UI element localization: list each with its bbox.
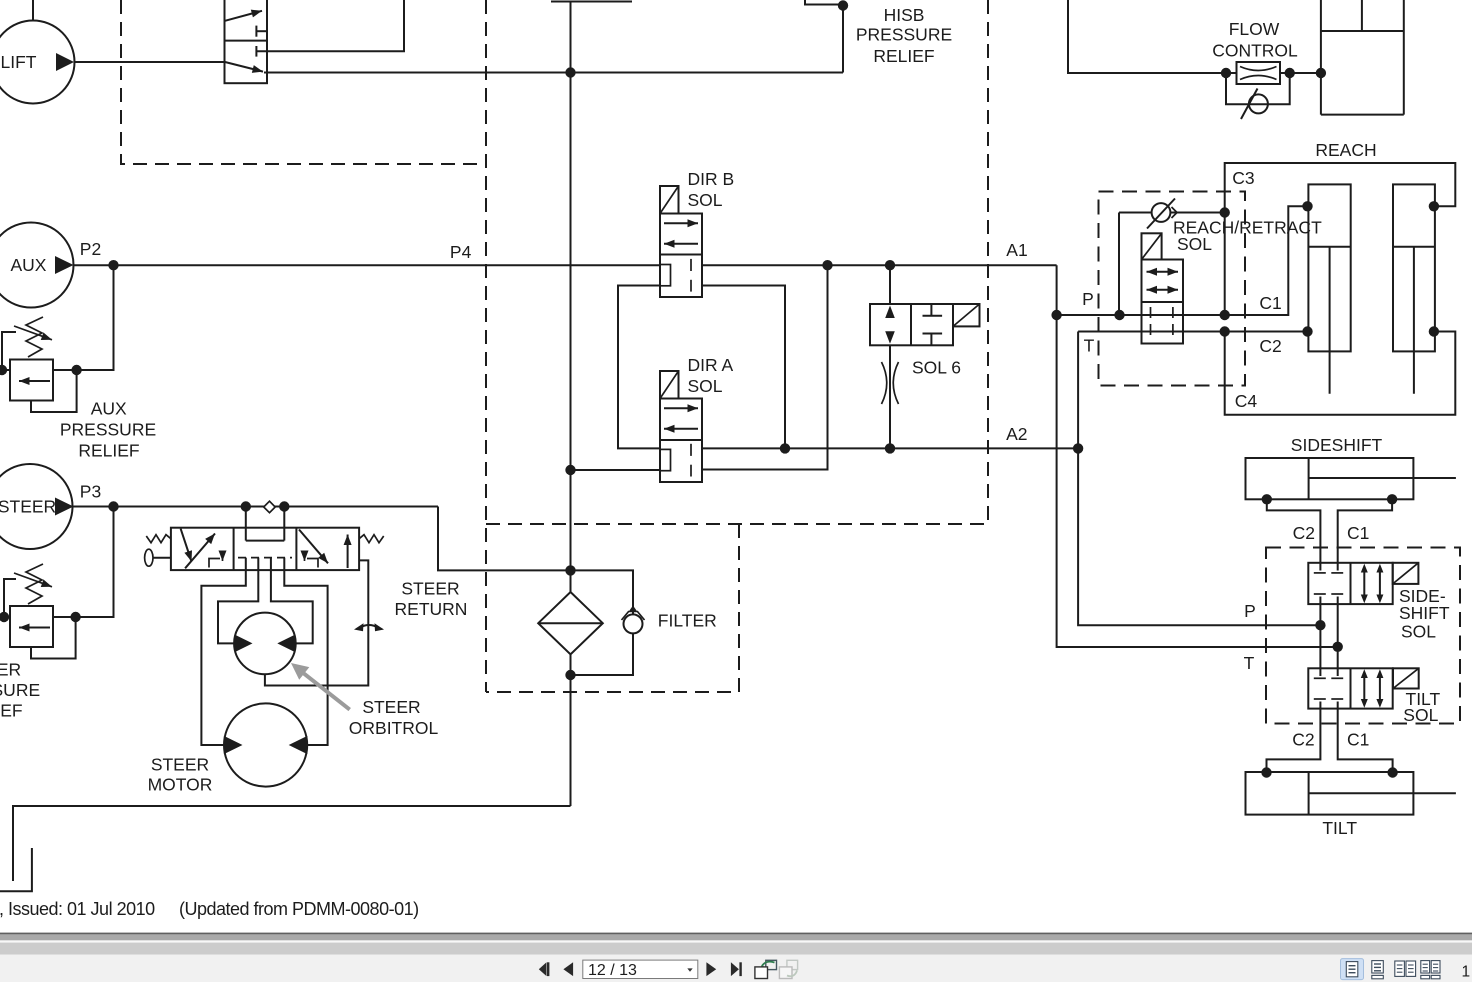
wire AUX relief drain loop	[31, 370, 77, 412]
label AUX PRESSURE RELIEF	[60, 399, 156, 461]
svg-text:PRESSURE: PRESSURE	[856, 25, 952, 45]
wire steer return loop	[265, 560, 368, 685]
valve DIR A body	[660, 399, 702, 483]
spring right of steer valve	[359, 535, 384, 543]
junction A2/DIR B loop	[780, 443, 790, 453]
valve DIR B SOL solenoid	[660, 186, 679, 214]
label REACH/RETRACT SOL	[1173, 218, 1322, 254]
junction filter bottom	[565, 670, 575, 680]
dashed boundary filter box	[486, 524, 739, 692]
pump STEER	[0, 464, 74, 549]
wire LIFT pump to valve	[75, 61, 225, 63]
pump LIFT	[0, 0, 75, 104]
junction steer supply right	[279, 501, 289, 511]
pump AUX	[0, 223, 74, 308]
cylinder TILT	[1246, 772, 1456, 815]
steer valve center cell closed ports	[238, 507, 292, 558]
dashed boundary REACH/RETRACT box	[1099, 192, 1246, 386]
svg-text:(Updated from PDMM-0080-01): (Updated from PDMM-0080-01)	[179, 899, 419, 919]
toolbar icon continuous	[1372, 961, 1384, 979]
toolbar icon two pages	[1395, 961, 1416, 976]
svg-text:SIDESHIFT: SIDESHIFT	[1291, 435, 1383, 455]
toolbar icon next view (disabled)	[779, 960, 797, 978]
svg-text:T: T	[1244, 653, 1255, 673]
wire A1 riser to sideshift T	[1057, 265, 1338, 647]
junction flow control left	[1221, 68, 1231, 78]
junction reach left cylinder bottom	[1302, 326, 1312, 336]
svg-text:, Issued: 01 Jul 2010: , Issued: 01 Jul 2010	[0, 899, 155, 919]
junction tilt cyl right	[1387, 767, 1397, 777]
wire filter drain to tank line	[570, 675, 572, 806]
solenoid of REACH/RETRACT valve	[1142, 233, 1162, 259]
label STEER MOTOR	[148, 755, 213, 795]
svg-text:T: T	[1084, 336, 1095, 356]
check valve flow control bypass	[1241, 89, 1268, 120]
svg-text:STEER: STEER	[151, 755, 209, 775]
wire steer valve port3 to orbitrol right	[271, 558, 313, 644]
svg-text:STEER: STEER	[401, 579, 459, 599]
svg-text:C1: C1	[1259, 293, 1281, 313]
svg-text:STEER: STEER	[0, 660, 21, 680]
orifice diamond on steer line	[264, 501, 276, 513]
wire A1 line	[702, 264, 1057, 266]
wire STEER relief outlet to P3	[53, 507, 114, 618]
spring left of steer valve	[146, 535, 171, 543]
junction P line left	[1051, 310, 1061, 320]
svg-text:SOL: SOL	[1403, 705, 1438, 725]
valve TILT SOL body	[1308, 668, 1392, 708]
junction P sideshift	[1315, 620, 1325, 630]
svg-text:A2: A2	[1006, 424, 1027, 444]
junction STEER relief pilot	[0, 612, 9, 622]
junction C2/C4	[1220, 326, 1230, 336]
wire AUX relief outlet to P2	[53, 265, 114, 370]
svg-text:P2: P2	[80, 239, 101, 259]
junction A2 elbow	[1073, 443, 1083, 453]
junction P2	[108, 260, 118, 270]
svg-text:C2: C2	[1259, 336, 1281, 356]
toolbar bars	[0, 933, 1472, 982]
wire DIR B right loop to A2	[702, 286, 785, 449]
wire SOL6 branch lower	[889, 345, 891, 448]
svg-text:P: P	[1244, 601, 1256, 621]
junction C1/C3	[1220, 310, 1230, 320]
toolbar icon previous view	[755, 960, 777, 978]
wire check valve to P	[1118, 213, 1120, 316]
wire flow control bypass	[1226, 73, 1290, 104]
svg-text:AUX: AUX	[11, 255, 47, 275]
wire STEER relief drain loop	[31, 617, 76, 659]
wire flow control outlet	[1280, 72, 1321, 74]
dashed boundary center vertical	[485, 0, 487, 692]
wire DIR B left loop to DIR A	[618, 286, 660, 449]
svg-text:TILT: TILT	[1322, 818, 1357, 838]
label STEER RETURN	[395, 579, 468, 620]
label HISB PRESSURE RELIEF	[856, 5, 952, 66]
relief valve STEER: body	[10, 606, 53, 647]
motor STEER ORBITROL	[234, 613, 296, 675]
label STEER ORBITROL	[349, 697, 439, 738]
svg-text:DIR A: DIR A	[688, 355, 734, 375]
dashed boundary main block left	[121, 0, 486, 164]
wire C1 to cylinder top	[1225, 206, 1308, 315]
solenoid of TILT valve	[1393, 668, 1419, 688]
toolbar page number box	[583, 960, 698, 979]
toolbar icon single page (selected)	[1341, 959, 1364, 980]
wire center riser x570	[570, 2, 572, 571]
label STEER PRESSURE RELIEF (clipped at left edge)	[0, 660, 40, 721]
dashed boundary middle horizontal	[486, 523, 988, 525]
svg-text:C2: C2	[1293, 523, 1315, 543]
cylinder REACH left	[1308, 184, 1350, 393]
svg-text:SOL: SOL	[688, 190, 723, 210]
junction reach left cylinder top	[1302, 201, 1312, 211]
svg-text:REACH: REACH	[1315, 140, 1376, 160]
wire steer valve port1 to motor left	[201, 558, 245, 745]
svg-text:RETURN: RETURN	[395, 599, 468, 619]
junction steer supply left	[241, 501, 251, 511]
svg-text:SOL: SOL	[688, 376, 723, 396]
wire DIR A left lower port to riser	[571, 469, 661, 471]
svg-text:SOL 6: SOL 6	[912, 358, 961, 378]
svg-text:FILTER: FILTER	[658, 611, 717, 631]
wire A2 riser to sideshift P	[1078, 332, 1320, 626]
junction riser/DIR A	[565, 465, 575, 475]
toolbar icon previous page	[563, 962, 573, 976]
valve DIR A SOL solenoid	[660, 371, 679, 399]
svg-text:STEER: STEER	[362, 697, 420, 717]
steer valve right cell flow paths	[299, 530, 348, 569]
svg-text:SOL: SOL	[1177, 234, 1212, 254]
handle of steer valve	[145, 549, 171, 566]
junction T sideshift	[1333, 642, 1343, 652]
wire REACH C3 header	[1225, 163, 1456, 315]
wire DIR A right lower loop to A1	[702, 265, 828, 469]
junction sideshift cyl right	[1387, 494, 1397, 504]
label SIDE-SHIFT SOL	[1399, 586, 1450, 642]
dashed boundary SIDESHIFT/TILT box	[1266, 548, 1460, 724]
steer valve left cell flow paths	[181, 529, 223, 569]
junction check/C3	[1220, 207, 1230, 217]
pointer arrow to orbitrol (gray)	[291, 663, 350, 710]
wire sideshift cyl right to valve C1	[1338, 499, 1392, 570]
svg-text:PRESSURE: PRESSURE	[60, 420, 156, 440]
wire steer line to filter	[438, 507, 571, 571]
junction A1/SOL6	[885, 260, 895, 270]
wire P3 main line	[74, 506, 439, 508]
pivot double arrow	[360, 625, 378, 628]
wire tank header	[13, 806, 571, 881]
toolbar icon next page	[706, 962, 716, 976]
junction HISB top	[838, 0, 848, 10]
flow control valve	[1237, 62, 1281, 84]
check valve REACH	[1119, 199, 1225, 229]
wire T/C2 line	[1078, 331, 1307, 333]
svg-text:C1: C1	[1347, 730, 1369, 750]
svg-text:RELIEF: RELIEF	[873, 46, 934, 66]
wire AUX relief pilot left	[2, 332, 16, 370]
svg-text:RELIEF: RELIEF	[78, 441, 139, 461]
wire tank stub	[0, 848, 32, 891]
svg-text:STEER: STEER	[0, 497, 56, 517]
wire STEER relief pilot left	[4, 579, 16, 617]
svg-text:DIR B: DIR B	[688, 169, 735, 189]
wire SOL6 branch upper	[889, 265, 891, 304]
filter element	[538, 570, 603, 675]
svg-text:P: P	[1082, 289, 1094, 309]
valve STEER 5/3 body	[171, 528, 359, 570]
wire steer valve port4 to motor right	[284, 558, 327, 745]
junction flow control right	[1285, 68, 1295, 78]
wire lift supply riser right	[1068, 0, 1226, 73]
cylinder REACH right	[1393, 184, 1435, 393]
svg-text:C2: C2	[1292, 730, 1314, 750]
restrictor on SOL6 branch	[882, 362, 899, 404]
wire steer valve port2 to orbitrol left	[218, 558, 258, 644]
junction AUX relief outlet	[71, 365, 81, 375]
toolbar icon last page	[731, 962, 742, 976]
wire P/C1 line	[1057, 314, 1225, 316]
svg-text:SOL: SOL	[1401, 622, 1436, 642]
wire tilt valve C2 to cylinder	[1267, 702, 1321, 773]
junction riser/HISB line	[565, 67, 575, 77]
svg-text:C4: C4	[1235, 391, 1258, 411]
wire REACH C4 header	[1225, 332, 1456, 415]
wire flow control inlet stub	[1226, 72, 1237, 74]
label DIR B SOL	[688, 169, 735, 210]
svg-text:1: 1	[1462, 964, 1471, 981]
component cut off at top edge	[551, 1, 632, 3]
svg-text:A1: A1	[1006, 240, 1027, 260]
toolbar icon two page continuous	[1421, 961, 1440, 979]
junction filter top	[565, 565, 575, 575]
svg-text:LIFT: LIFT	[1, 52, 37, 72]
wire valve outlet to HISB riser	[264, 72, 843, 74]
cylinder LIFT (cut off at top)	[1321, 0, 1404, 115]
relief valve AUX: body	[10, 360, 53, 401]
label DIR A SOL	[688, 355, 734, 396]
wire valve-to-valve right	[1337, 597, 1339, 677]
dashed boundary right vertical	[987, 0, 989, 524]
wire sideshift cyl left to valve C2	[1267, 499, 1321, 570]
relief valve STEER: spring	[14, 564, 52, 604]
svg-text:MOTOR: MOTOR	[148, 775, 213, 795]
valve DIR B body	[660, 214, 702, 298]
wire filter bypass	[571, 570, 634, 675]
svg-text:HISB: HISB	[884, 5, 925, 25]
svg-text:PRESSURE: PRESSURE	[0, 680, 40, 700]
svg-text:12 / 13: 12 / 13	[588, 962, 637, 979]
wire tilt valve C1 to cylinder	[1338, 702, 1393, 773]
junction reach right cylinder bottom	[1429, 326, 1439, 336]
toolbar icon first page	[539, 962, 550, 976]
svg-text:C3: C3	[1232, 168, 1254, 188]
valve SOL 6	[870, 304, 953, 345]
wire A2 line	[702, 447, 1078, 449]
junction tilt cyl left	[1261, 767, 1271, 777]
valve REACH/RETRACT body	[1142, 260, 1184, 344]
cylinder SIDESHIFT	[1246, 458, 1456, 499]
junction reach right cylinder top	[1429, 201, 1439, 211]
junction A1/DIR A loop	[822, 260, 832, 270]
junction P3	[108, 501, 118, 511]
svg-text:SHIFT: SHIFT	[1399, 603, 1450, 623]
footer issued text	[0, 899, 419, 919]
svg-text:ORBITROL: ORBITROL	[349, 718, 439, 738]
junction STEER relief outlet	[70, 612, 80, 622]
junction sideshift cyl left	[1262, 494, 1272, 504]
wire valve-to-valve left	[1319, 597, 1321, 677]
solenoid of SIDE-SHIFT valve	[1393, 563, 1419, 584]
svg-text:RELIEF: RELIEF	[0, 701, 23, 721]
wire P4 main line	[74, 264, 661, 266]
check valve filter bypass	[622, 606, 645, 634]
svg-text:C1: C1	[1347, 523, 1369, 543]
valve LIFT selector (cut off at top)	[225, 0, 268, 83]
junction AUX relief pilot	[0, 365, 7, 375]
relief valve AUX: spring	[14, 317, 52, 357]
svg-text:CONTROL: CONTROL	[1212, 41, 1298, 61]
svg-text:P3: P3	[80, 482, 101, 502]
junction lift cylinder port	[1316, 68, 1326, 78]
valve SIDE-SHIFT SOL body	[1308, 563, 1392, 604]
motor STEER MOTOR	[224, 703, 307, 786]
svg-text:FLOW: FLOW	[1229, 19, 1280, 39]
svg-text:P4: P4	[450, 242, 472, 262]
solenoid of SOL 6	[953, 304, 980, 326]
svg-text:AUX: AUX	[91, 399, 127, 419]
label TILT SOL	[1403, 689, 1440, 725]
wire HISB riser	[805, 0, 843, 73]
junction P check branch	[1114, 310, 1124, 320]
wire valve tank port to top	[256, 0, 404, 51]
label FLOW CONTROL	[1212, 19, 1298, 60]
junction A2/SOL6	[885, 443, 895, 453]
